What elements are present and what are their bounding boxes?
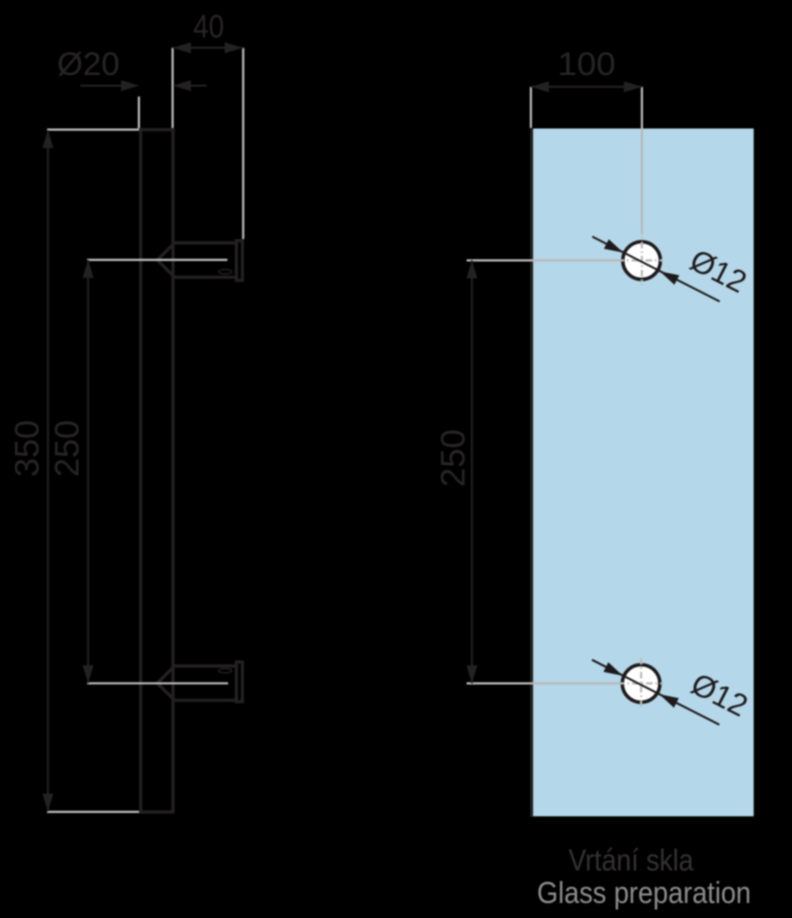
svg-text:Vrtání skla: Vrtání skla xyxy=(569,843,695,878)
svg-text:250: 250 xyxy=(49,420,87,477)
svg-text:Ø20: Ø20 xyxy=(57,46,120,82)
svg-text:Glass preparation: Glass preparation xyxy=(537,875,751,910)
svg-text:250: 250 xyxy=(434,429,472,487)
svg-text:350: 350 xyxy=(9,420,47,477)
svg-text:100: 100 xyxy=(558,46,616,82)
svg-text:40: 40 xyxy=(193,9,224,45)
